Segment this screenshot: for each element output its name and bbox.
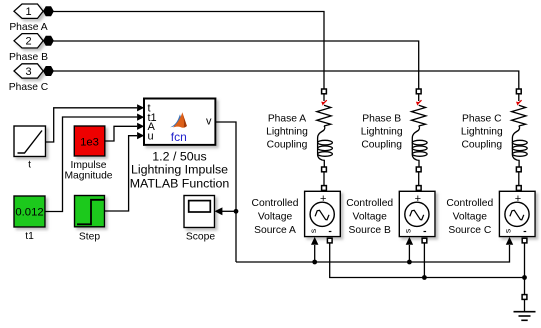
branch C bottom lead: [512, 155, 519, 168]
svg-text:Phase A: Phase A: [9, 22, 47, 33]
source C signal input arrow: [506, 237, 513, 245]
svg-text:Source C: Source C: [448, 225, 491, 236]
svg-text:Coupling: Coupling: [267, 140, 308, 151]
svg-text:1e3: 1e3: [80, 136, 99, 148]
svg-text:s: s: [403, 229, 413, 233]
svg-text:Phase A: Phase A: [268, 114, 306, 125]
source C body: [499, 191, 535, 236]
svg-text:Phase B: Phase B: [362, 114, 401, 125]
wire ramp to fcn t input: [46, 108, 138, 142]
wire branch C to source: [518, 172, 520, 186]
inport 2 (Phase B): [14, 34, 43, 48]
svg-text:Lightning: Lightning: [361, 127, 403, 138]
ground symbol: [514, 299, 536, 320]
inport 3 (Phase C): [14, 64, 43, 78]
svg-text:Source A: Source A: [254, 225, 296, 236]
wire up to source B arrow: [408, 245, 410, 262]
svg-text:Phase C: Phase C: [462, 114, 502, 125]
svg-text:2: 2: [25, 36, 31, 48]
source A body: [305, 191, 341, 236]
scope input arrow (flipped): [215, 207, 223, 215]
inport 1 (Phase A): [14, 4, 43, 18]
svg-text:t: t: [28, 160, 31, 171]
wire Phase A: port1 to branch A: [53, 12, 324, 90]
junction signal bus B: [407, 260, 412, 265]
svg-text:Lightning: Lightning: [266, 127, 308, 138]
junction negative bus B: [422, 275, 427, 280]
wire Phase B: port2 to branch B: [53, 41, 418, 89]
controlled voltage source A: top terminal: [322, 186, 327, 191]
wire 0.012 to fcn t1 input: [45, 117, 137, 212]
wire branch A to source: [323, 172, 325, 186]
svg-text:s: s: [503, 229, 513, 233]
negative bus wire: [330, 243, 525, 278]
branch A red current arrow: [321, 100, 327, 105]
wire up to source A arrow: [314, 245, 316, 262]
branch A bottom terminal: [322, 167, 327, 172]
svg-text:Coupling: Coupling: [461, 140, 502, 151]
fcn input arrow A: [137, 123, 144, 130]
svg-text:Step: Step: [79, 232, 100, 243]
step block Step: [75, 196, 105, 227]
MATLAB logo: [170, 112, 187, 127]
svg-text:Controlled: Controlled: [346, 198, 393, 209]
scope block: [184, 196, 215, 228]
branch C red current arrow: [516, 100, 522, 105]
wire Phase C: port3 to branch C: [53, 71, 518, 89]
series RLC branch B: top terminal: [416, 89, 421, 94]
svg-text:Lightning: Lightning: [461, 127, 503, 138]
svg-text:Controlled: Controlled: [446, 198, 493, 209]
constant block 1e3 Impulse Magnitude: [74, 126, 105, 156]
fcn input arrow t1: [137, 114, 144, 121]
svg-text:Voltage: Voltage: [353, 211, 388, 222]
svg-text:0.012: 0.012: [15, 207, 43, 219]
source C negative terminal: [522, 238, 527, 243]
series RLC branch A: top terminal: [322, 89, 327, 94]
svg-text:Coupling: Coupling: [361, 140, 402, 151]
svg-text:Phase C: Phase C: [9, 82, 49, 93]
source A signal input arrow: [311, 237, 318, 245]
ramp block t: [14, 126, 46, 157]
branch A resistor: [317, 105, 331, 126]
svg-text:1.2 / 50us: 1.2 / 50us: [152, 149, 206, 163]
junction signal bus A: [312, 260, 317, 265]
branch C top lead: [518, 94, 520, 101]
wire scope tap: [222, 210, 236, 212]
ground terminal square: [522, 295, 527, 300]
connection bubble port 1: [43, 7, 53, 16]
MATLAB Function block U1: [144, 99, 215, 145]
svg-text:MATLAB Function: MATLAB Function: [130, 176, 230, 190]
wire Step to fcn u input: [105, 136, 138, 211]
constant block 0.012 t1: [14, 196, 45, 227]
branch A inductor: [318, 138, 333, 156]
svg-text:Voltage: Voltage: [453, 211, 488, 222]
wire source C negative down to ground: [524, 243, 526, 295]
junction negative bus C: [522, 275, 527, 280]
source B signal input arrow: [406, 237, 413, 245]
branch B bottom lead: [412, 155, 419, 168]
connection bubble port 2: [43, 36, 53, 45]
branch B top lead: [418, 94, 420, 101]
controlled voltage source B: top terminal: [416, 186, 421, 191]
connection bubble port 3: [43, 66, 53, 75]
svg-text:fcn: fcn: [171, 130, 187, 144]
series RLC branch C: top terminal: [516, 89, 521, 94]
svg-text:Controlled: Controlled: [252, 198, 299, 209]
svg-text:u: u: [148, 130, 154, 142]
svg-text:3: 3: [25, 66, 31, 78]
wire 1e3 to fcn A input: [105, 126, 137, 141]
svg-text:v: v: [206, 115, 212, 127]
branch B bottom terminal: [416, 167, 421, 172]
svg-text:s: s: [308, 229, 318, 233]
branch A mid lead: [318, 126, 325, 138]
branch C inductor: [512, 138, 527, 156]
branch A bottom lead: [318, 155, 325, 168]
branch B mid lead: [412, 126, 419, 138]
wire fcn v output down to signal bus: [215, 122, 236, 262]
branch C resistor: [512, 105, 526, 126]
source B negative terminal: [422, 238, 427, 243]
branch B red current arrow: [416, 100, 422, 105]
junction scope tap: [234, 209, 239, 214]
svg-text:Scope: Scope: [186, 232, 215, 243]
svg-text:Magnitude: Magnitude: [64, 171, 112, 182]
branch A top lead: [323, 94, 325, 101]
svg-text:Voltage: Voltage: [258, 211, 293, 222]
svg-text:Lightning Impulse: Lightning Impulse: [131, 163, 228, 177]
branch C bottom terminal: [516, 167, 521, 172]
source A negative terminal: [327, 238, 332, 243]
wire source B negative down: [423, 243, 425, 278]
signal bus wire to source inputs: [236, 245, 510, 262]
source B body: [399, 191, 435, 236]
svg-text:Source B: Source B: [349, 225, 391, 236]
wire branch B to source: [418, 172, 420, 186]
controlled voltage source C: top terminal: [516, 186, 521, 191]
svg-text:Phase B: Phase B: [9, 52, 48, 63]
svg-text:1: 1: [25, 6, 31, 18]
fcn input arrow u: [137, 132, 144, 139]
branch B resistor: [412, 105, 426, 126]
branch B inductor: [412, 138, 427, 156]
svg-text:t1: t1: [25, 231, 34, 242]
branch C mid lead: [512, 126, 519, 138]
fcn input arrow t: [137, 104, 144, 111]
